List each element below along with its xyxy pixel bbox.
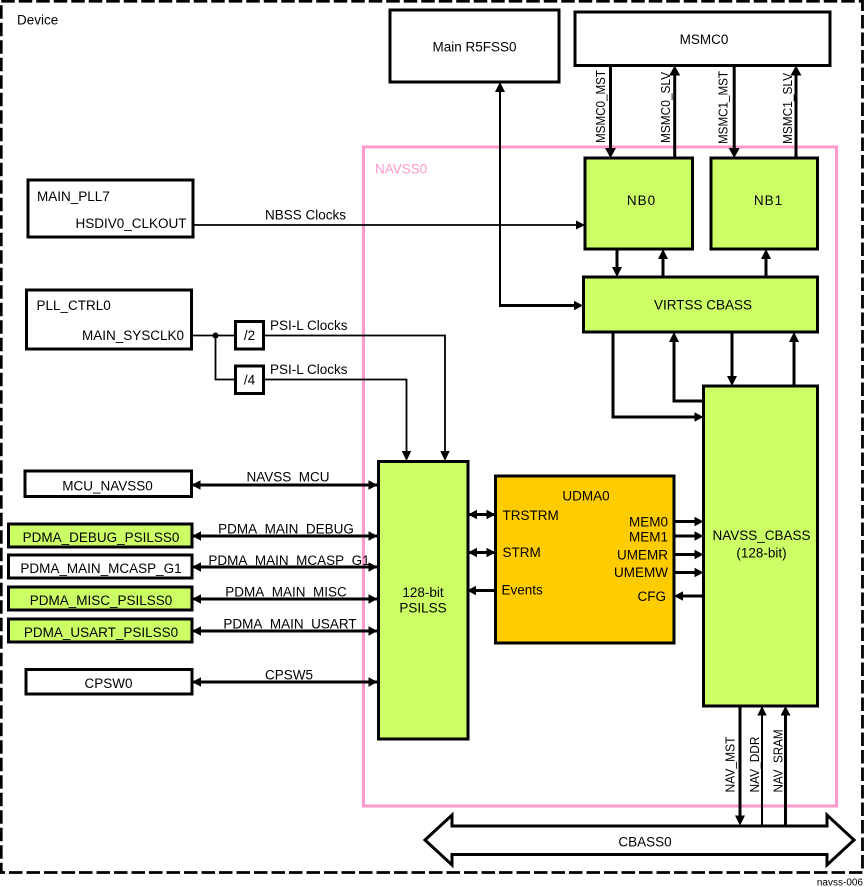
box MAIN_PLL7 / HSDIV0_CLKOUT [28,180,193,237]
box /2 divider [236,322,264,350]
svg-text:MEM1: MEM1 [629,530,668,545]
box NB1 [711,158,818,249]
svg-text:CPSW0: CPSW0 [84,676,132,691]
svg-text:CFG: CFG [638,589,667,604]
wire MSMC1_MST [733,66,736,150]
svg-text:PDMA_MAIN_MISC: PDMA_MAIN_MISC [225,585,347,600]
svg-text:PSILSS: PSILSS [399,601,446,616]
wire UMEMR [674,553,696,556]
wire MEM0 [674,520,696,523]
svg-text:NAV_SRAM: NAV_SRAM [771,730,786,793]
svg-text:MAIN_SYSCLK0: MAIN_SYSCLK0 [82,328,184,343]
wire MSMC1_SLV [795,75,798,159]
svg-text:PDMA_DEBUG_PSILSS0: PDMA_DEBUG_PSILSS0 [23,530,180,545]
svg-text:STRM: STRM [503,545,541,560]
wire PSI-L Clocks from /2 to PSILSS [264,336,446,453]
wire VIRTSS to NAVSS_CBASS (down) [731,332,734,377]
box PDMA_DEBUG_PSILSS0 [9,524,193,547]
svg-text:NAV_MST: NAV_MST [723,736,738,792]
wire VIRTSS to NB0 (up) [662,258,665,277]
box NB0 [585,158,693,249]
wire CPSW5 (double) [192,681,378,684]
svg-text:NAV_DDR: NAV_DDR [747,737,762,793]
svg-text:128-bit: 128-bit [402,585,444,600]
svg-text:PLL_CTRL0: PLL_CTRL0 [37,298,111,313]
svg-text:CBASS0: CBASS0 [618,835,671,850]
wire NB0 to VIRTSS (down) [616,249,619,268]
wire PDMA_MAIN_DEBUG (double) [192,535,378,538]
wire MEM1 [674,535,696,538]
svg-text:/4: /4 [244,373,256,388]
svg-text:PSI-L Clocks: PSI-L Clocks [270,362,348,377]
svg-text:MSMC0_SLV: MSMC0_SLV [658,72,673,143]
box PDMA_MAIN_MCASP_G1 [9,555,193,578]
svg-text:NAVSS_CBASS: NAVSS_CBASS [712,528,810,543]
box MSMC0 [575,12,830,66]
wire TRSTRM (double) [468,513,496,516]
NAVSS0 region (pink) [364,147,837,806]
svg-text:MSMC1_SLV: MSMC1_SLV [780,73,795,144]
svg-text:/2: /2 [244,328,255,343]
wire PDMA_MAIN_MCASP_G1 (double) [192,566,378,569]
wire Main R5FSS0 to VIRTSS CBASS (L-shaped, two heads) [499,91,501,306]
wire MSMC0_MST [609,66,612,150]
wire NAVSS_CBASS to VIRTSS (up) [793,341,796,386]
box UDMA0 [496,476,675,643]
svg-text:NB0: NB0 [627,193,656,208]
box /4 divider [236,366,264,394]
wire VIRTSS to NAVSS_CBASS left (L, right head) [613,332,695,417]
box 128-bit PSILSS [379,462,469,740]
wire Events (left) [470,589,496,592]
svg-text:PDMA_MAIN_MCASP_G1: PDMA_MAIN_MCASP_G1 [208,553,369,568]
svg-text:PDMA_MAIN_USART: PDMA_MAIN_USART [223,617,356,632]
svg-text:NAVSS0: NAVSS0 [375,162,427,177]
wire STRM (double) [468,551,496,554]
wire NBSS Clocks (MAIN_PLL7 to NB0) [193,224,578,226]
svg-text:MSMC0_MST: MSMC0_MST [593,70,608,143]
box Main R5FSS0 [390,10,559,82]
svg-text:Device: Device [17,13,58,28]
svg-text:UMEMW: UMEMW [614,565,668,580]
svg-text:Events: Events [502,583,544,598]
wire PDMA_MAIN_USART (double) [192,630,378,633]
box CPSW0 [26,670,192,695]
CBASS0 bus arrow [425,815,854,865]
wire MSMC0_SLV [673,75,676,159]
box PDMA_MISC_PSILSS0 [9,587,193,610]
svg-text:UMEMR: UMEMR [617,548,668,563]
wire NAV_DDR (up) [761,714,763,826]
svg-text:MSMC0: MSMC0 [680,32,729,47]
svg-text:CPSW5: CPSW5 [265,668,313,683]
wire NAV_MST (down) [739,706,742,817]
wire PDMA_MAIN_MISC (double) [192,598,378,601]
wire NAV_SRAM (up) [784,714,787,826]
wire VIRTSS to NB1 (up) [765,258,768,277]
svg-text:(128-bit): (128-bit) [736,546,786,561]
svg-text:PSI-L Clocks: PSI-L Clocks [270,318,348,333]
box NAVSS_CBASS (128-bit) [704,386,818,706]
wire UMEMW [674,571,696,574]
svg-text:Main R5FSS0: Main R5FSS0 [432,40,516,55]
svg-text:PDMA_USART_PSILSS0: PDMA_USART_PSILSS0 [24,625,178,640]
box VIRTSS CBASS [584,277,818,332]
node junction dot [213,333,219,339]
svg-text:MAIN_PLL7: MAIN_PLL7 [37,189,110,204]
svg-text:NAVSS_MCU: NAVSS_MCU [246,470,329,485]
svg-text:PDMA_MAIN_MCASP_G1: PDMA_MAIN_MCASP_G1 [20,561,181,576]
svg-text:MCU_NAVSS0: MCU_NAVSS0 [62,479,153,494]
wire MAIN_SYSCLK0 to /2 [192,335,236,337]
box PDMA_USART_PSILSS0 [9,619,193,642]
wire PSI-L Clocks from /4 to PSILSS [264,380,407,453]
svg-text:PDMA_MISC_PSILSS0: PDMA_MISC_PSILSS0 [30,593,173,608]
svg-text:NBSS Clocks: NBSS Clocks [265,208,346,223]
svg-text:TRSTRM: TRSTRM [503,508,559,523]
box PLL_CTRL0 / MAIN_SYSCLK0 [27,290,192,349]
svg-text:navss-006: navss-006 [817,878,864,887]
wire junction to /4 [216,336,236,380]
svg-text:PDMA_MAIN_DEBUG: PDMA_MAIN_DEBUG [218,522,354,537]
svg-text:MEM0: MEM0 [629,515,668,530]
wire NAVSS_MCU (double) [192,484,378,487]
wire NAVSS_CBASS to VIRTSS (L, up head) [674,339,704,401]
svg-text:HSDIV0_CLKOUT: HSDIV0_CLKOUT [75,216,186,231]
box MCU_NAVSS0 [25,471,192,497]
svg-text:NB1: NB1 [754,193,783,208]
svg-text:MSMC1_MST: MSMC1_MST [716,71,731,144]
svg-text:UDMA0: UDMA0 [562,489,609,504]
svg-text:VIRTSS CBASS: VIRTSS CBASS [654,298,752,313]
wire CFG (left) [681,595,704,598]
